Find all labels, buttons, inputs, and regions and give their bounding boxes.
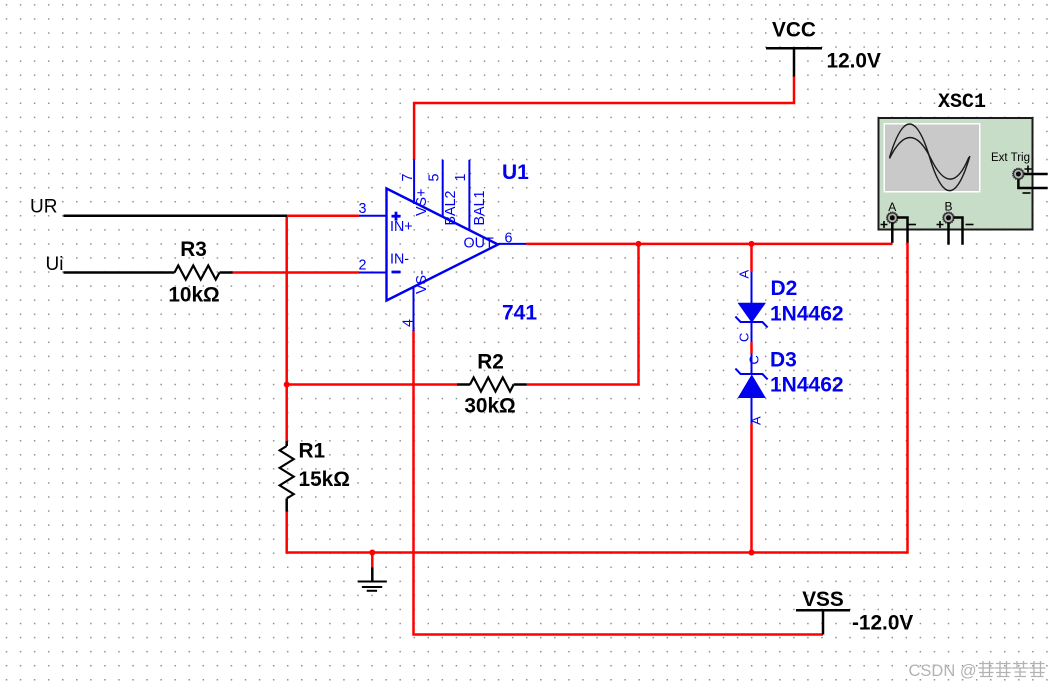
svg-text:OUT: OUT — [464, 236, 494, 252]
svg-text:5: 5 — [427, 174, 443, 182]
svg-text:VSS: VSS — [802, 588, 844, 611]
svg-text:R3: R3 — [180, 238, 207, 261]
svg-text:Ui: Ui — [46, 254, 64, 275]
svg-text:XSC1: XSC1 — [938, 91, 986, 114]
svg-text:10kΩ: 10kΩ — [168, 284, 219, 307]
svg-text:A: A — [736, 270, 751, 279]
svg-text:4: 4 — [401, 319, 417, 327]
svg-text:IN+: IN+ — [390, 219, 413, 235]
svg-text:-12.0V: -12.0V — [852, 612, 913, 635]
svg-text:R1: R1 — [299, 440, 326, 463]
svg-text:VS-: VS- — [414, 270, 430, 294]
svg-text:1: 1 — [453, 174, 469, 182]
svg-text:IN-: IN- — [390, 252, 409, 268]
svg-text:A: A — [888, 200, 896, 214]
svg-text:U1: U1 — [502, 161, 529, 184]
svg-text:R2: R2 — [477, 351, 504, 374]
svg-text:A: A — [748, 416, 763, 425]
svg-text:1N4462: 1N4462 — [770, 374, 844, 397]
svg-text:B: B — [944, 200, 952, 214]
svg-text:741: 741 — [502, 302, 537, 325]
svg-text:6: 6 — [505, 231, 513, 247]
svg-text:15kΩ: 15kΩ — [299, 468, 350, 491]
svg-text:VS+: VS+ — [414, 189, 430, 216]
svg-text:BAL2: BAL2 — [443, 190, 459, 225]
svg-text:C: C — [746, 355, 761, 364]
svg-text:D3: D3 — [770, 349, 797, 372]
svg-text:12.0V: 12.0V — [827, 50, 881, 73]
svg-text:BAL1: BAL1 — [472, 190, 488, 225]
svg-text:30kΩ: 30kΩ — [464, 395, 515, 418]
svg-text:Ext Trig: Ext Trig — [991, 152, 1030, 164]
svg-text:UR: UR — [30, 197, 57, 218]
svg-text:VCC: VCC — [772, 19, 816, 42]
svg-text:1N4462: 1N4462 — [770, 303, 844, 326]
svg-text:D2: D2 — [771, 277, 798, 300]
svg-text:CSDN @: CSDN @ — [909, 662, 977, 680]
svg-text:C: C — [736, 333, 751, 342]
svg-text:7: 7 — [400, 174, 416, 182]
svg-text:3: 3 — [359, 201, 367, 217]
svg-text:2: 2 — [359, 258, 367, 274]
